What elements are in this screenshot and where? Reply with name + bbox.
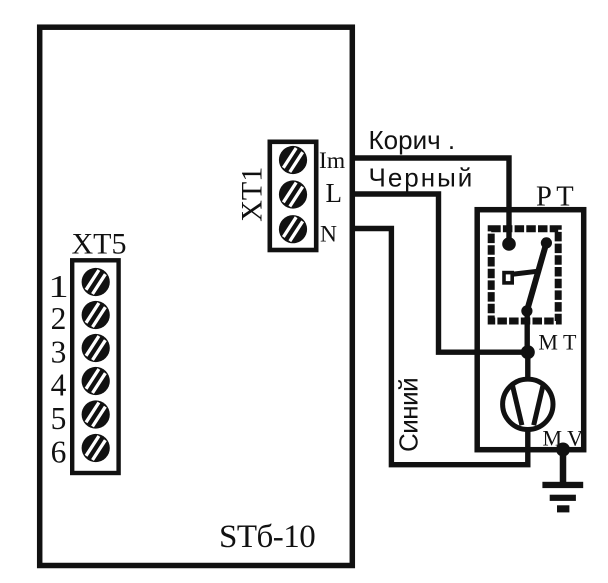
thermostat dashed box (491, 229, 558, 321)
svg-text:1: 1 (48, 269, 68, 304)
svg-text:Черный: Черный (369, 162, 475, 192)
switch fixed contact dot (541, 237, 552, 248)
XT5 screw terminal 6 (76, 428, 115, 467)
svg-text:SТб-10: SТб-10 (219, 519, 315, 555)
XT5 screw terminal 1 (76, 262, 115, 301)
svg-text:XT1: XT1 (236, 167, 269, 222)
svg-text:5: 5 (51, 401, 67, 436)
XT5 screw terminal 4 (76, 361, 115, 400)
switch moving contact dot (521, 305, 532, 316)
motor (fan) circle (503, 379, 553, 429)
wire black (L to MT node) (352, 194, 528, 352)
XT5 screw terminal 3 (76, 328, 115, 367)
terminal block XT1 outline (270, 142, 316, 250)
node: brown wire terminal dot (502, 237, 516, 251)
node MV junction dot (556, 443, 570, 457)
XT1 screw terminal N (273, 210, 312, 249)
thermostat actuator rod (514, 271, 539, 274)
device enclosure STб-10 box (40, 27, 353, 565)
motor blade left (512, 384, 522, 425)
svg-text:6: 6 (51, 435, 67, 470)
switch arm (527, 243, 547, 311)
svg-text:M V: M V (543, 426, 584, 451)
motor top lead wire (525, 352, 530, 378)
svg-text:Корич .: Корич . (369, 125, 456, 155)
svg-text:3: 3 (51, 335, 67, 370)
svg-text:Синий: Синий (394, 378, 424, 452)
ground symbol bar 3 (557, 505, 569, 512)
switch lower lead wire (525, 311, 530, 352)
motor blade right (534, 384, 544, 425)
svg-text:XT5: XT5 (72, 227, 127, 260)
component PT outline (477, 210, 584, 450)
svg-text:РТ: РТ (536, 182, 578, 213)
svg-text:4: 4 (51, 368, 67, 403)
svg-text:L: L (326, 178, 343, 208)
XT1 screw terminal Im (273, 140, 312, 179)
XT1 screw terminal L (273, 175, 312, 214)
XT5 screw terminal 5 (76, 395, 115, 434)
svg-text:N: N (320, 221, 337, 247)
svg-text:Im: Im (319, 148, 345, 174)
ground stem wire (560, 450, 567, 483)
wire blue (N to motor bottom) (352, 229, 528, 465)
thermostat actuator square (504, 273, 512, 283)
terminal block XT5 outline (72, 260, 118, 473)
node MT junction dot (521, 345, 535, 359)
svg-text:2: 2 (51, 301, 67, 336)
ground symbol bar 1 (542, 482, 583, 488)
XT5 screw terminal 2 (76, 295, 115, 334)
svg-text:M T: M T (538, 330, 577, 355)
ground symbol bar 2 (550, 495, 576, 501)
wire brown (Im to relay contact) (352, 158, 509, 244)
